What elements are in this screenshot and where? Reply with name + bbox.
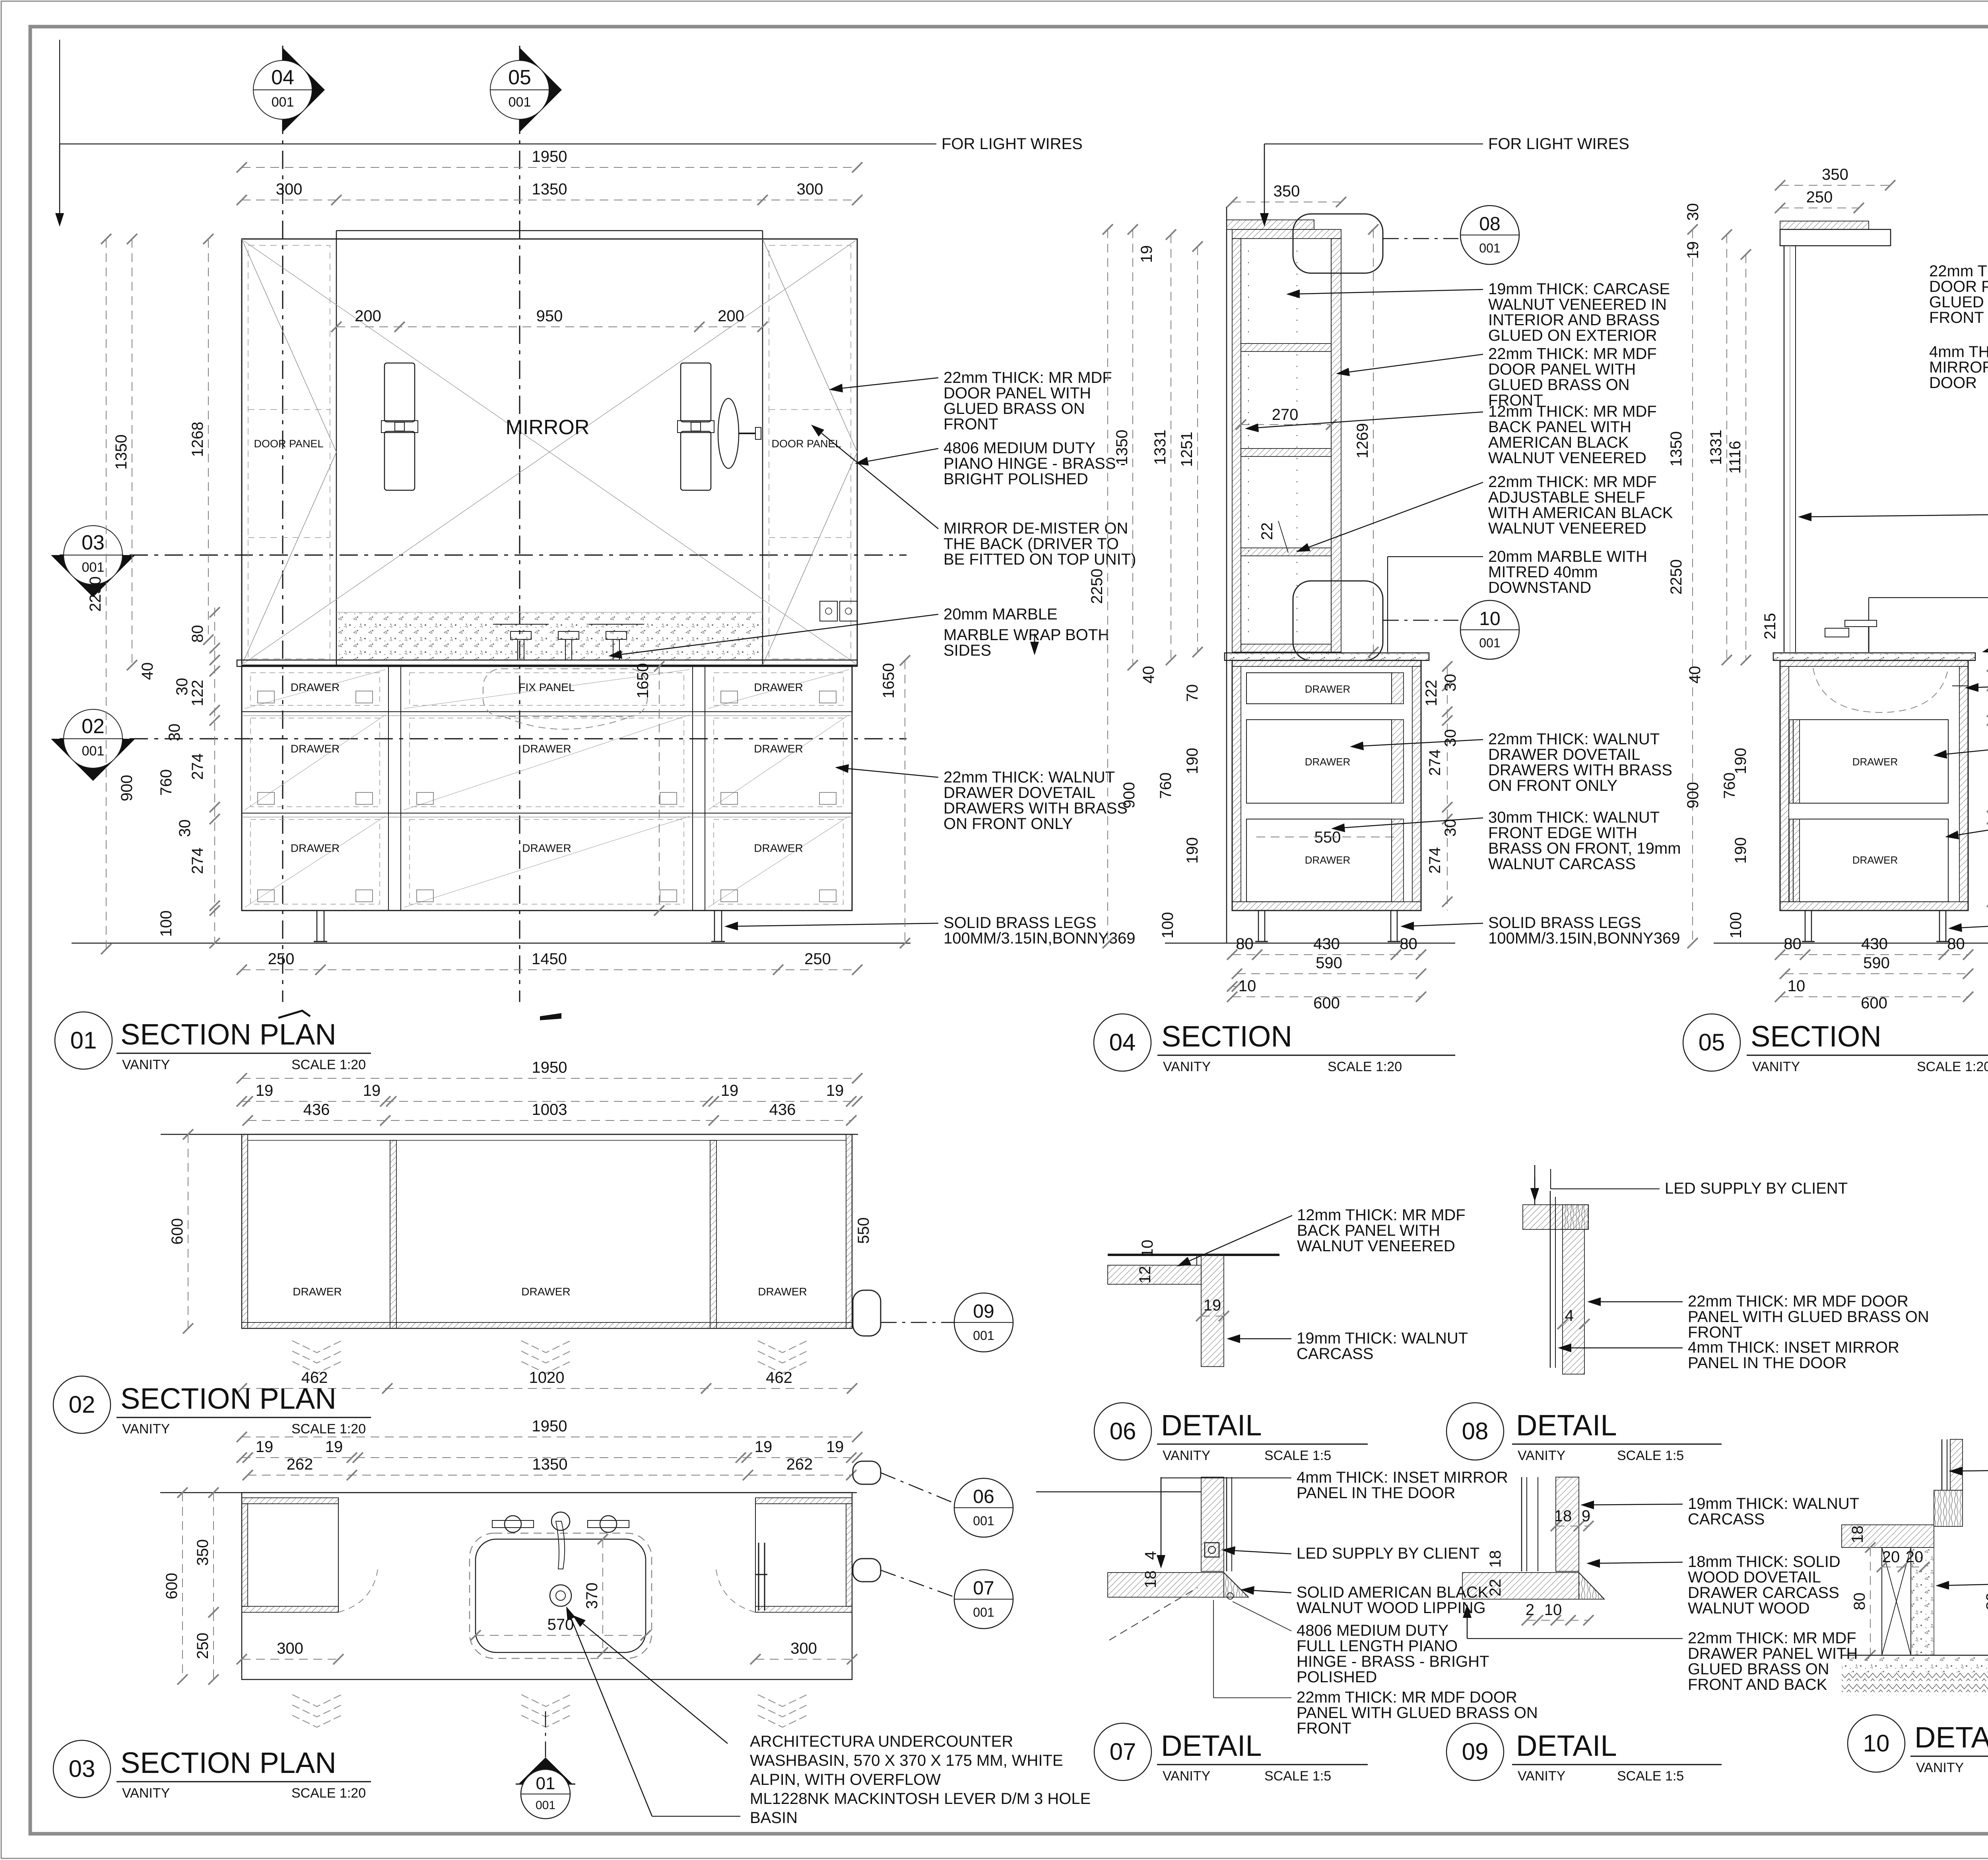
svg-text:001: 001 (272, 95, 294, 110)
svg-text:GLUED BRASS ON: GLUED BRASS ON (944, 400, 1085, 417)
svg-text:FIX PANEL: FIX PANEL (518, 681, 575, 693)
svg-text:WASHBASIN, 570 X 370 X 175 MM,: WASHBASIN, 570 X 370 X 175 MM, WHITE (750, 1752, 1063, 1769)
svg-text:250: 250 (194, 1633, 212, 1659)
svg-text:4806 MEDIUM DUTY: 4806 MEDIUM DUTY (944, 439, 1095, 457)
svg-text:04: 04 (1109, 1029, 1136, 1056)
svg-text:2250: 2250 (1088, 569, 1106, 604)
svg-text:20mm MARBLE: 20mm MARBLE (944, 606, 1058, 623)
svg-text:SOLID AMERICAN BLACK: SOLID AMERICAN BLACK (1297, 1584, 1489, 1601)
svg-text:AMERICAN BLACK: AMERICAN BLACK (1488, 434, 1629, 451)
svg-text:300: 300 (277, 1640, 303, 1657)
svg-text:22mm THICK: WALNUT: 22mm THICK: WALNUT (1488, 730, 1660, 748)
svg-text:1350: 1350 (1113, 430, 1131, 465)
svg-text:SCALE 1:5: SCALE 1:5 (1617, 1448, 1684, 1463)
svg-text:DRAWER DOVETAIL: DRAWER DOVETAIL (1488, 746, 1640, 763)
svg-text:262: 262 (287, 1456, 313, 1473)
svg-text:MIRROR PANEL IN THE: MIRROR PANEL IN THE (1929, 359, 1988, 376)
svg-text:INTERIOR AND BRASS: INTERIOR AND BRASS (1488, 311, 1660, 329)
svg-text:SOLID BRASS LEGS: SOLID BRASS LEGS (1488, 914, 1641, 932)
svg-text:430: 430 (1861, 935, 1888, 953)
svg-text:80: 80 (1983, 1592, 1988, 1610)
svg-text:19: 19 (325, 1438, 343, 1456)
svg-text:06: 06 (1110, 1418, 1136, 1445)
svg-text:19: 19 (1138, 245, 1155, 263)
svg-text:MIRROR: MIRROR (506, 416, 590, 439)
svg-text:550: 550 (855, 1217, 872, 1244)
svg-text:FULL LENGTH PIANO: FULL LENGTH PIANO (1297, 1637, 1458, 1655)
svg-text:760: 760 (1721, 773, 1738, 799)
svg-text:FRONT AND BACK: FRONT AND BACK (1688, 1676, 1827, 1693)
svg-text:GLUED BRASS ON: GLUED BRASS ON (1488, 376, 1630, 394)
svg-text:19mm THICK: WALNUT: 19mm THICK: WALNUT (1688, 1495, 1859, 1512)
svg-text:80: 80 (189, 625, 206, 643)
svg-text:DRAWER PANEL WITH: DRAWER PANEL WITH (1688, 1645, 1858, 1662)
svg-text:900: 900 (1120, 782, 1138, 809)
svg-text:VANITY: VANITY (122, 1057, 170, 1072)
svg-text:22mm THICK: WALNUT: 22mm THICK: WALNUT (944, 769, 1115, 786)
svg-text:SCALE 1:5: SCALE 1:5 (1264, 1448, 1331, 1463)
svg-text:436: 436 (769, 1101, 796, 1118)
svg-text:DOOR PANEL WITH: DOOR PANEL WITH (944, 384, 1091, 402)
svg-text:BE FITTED ON TOP UNIT): BE FITTED ON TOP UNIT) (944, 551, 1136, 568)
svg-text:215: 215 (1761, 613, 1779, 640)
svg-text:1268: 1268 (189, 422, 206, 457)
svg-text:DRAWERS WITH BRASS: DRAWERS WITH BRASS (944, 800, 1128, 817)
svg-text:DRAWER CARCASS: DRAWER CARCASS (1688, 1584, 1839, 1602)
svg-text:1269: 1269 (1354, 423, 1371, 458)
svg-text:2250: 2250 (1668, 559, 1685, 595)
svg-text:250: 250 (268, 950, 295, 968)
svg-text:4mm THICK: INSET MIRROR: 4mm THICK: INSET MIRROR (1297, 1469, 1508, 1486)
svg-text:300: 300 (790, 1640, 817, 1657)
svg-text:1350: 1350 (532, 1456, 568, 1473)
svg-text:FRONT: FRONT (1929, 309, 1984, 326)
svg-text:DETAIL: DETAIL (1161, 1729, 1262, 1762)
svg-text:10: 10 (1788, 977, 1806, 995)
svg-text:40: 40 (139, 662, 156, 680)
svg-text:19: 19 (721, 1082, 739, 1099)
svg-text:22mm THICK: MR MDF: 22mm THICK: MR MDF (1688, 1629, 1856, 1647)
svg-text:DOOR PANEL WITH: DOOR PANEL WITH (1488, 361, 1636, 378)
svg-text:4: 4 (1565, 1307, 1574, 1324)
svg-text:SIDES: SIDES (944, 642, 991, 659)
svg-text:PANEL IN THE DOOR: PANEL IN THE DOOR (1688, 1354, 1846, 1372)
svg-text:ALPIN, WITH OVERFLOW: ALPIN, WITH OVERFLOW (750, 1771, 941, 1788)
svg-text:950: 950 (536, 307, 563, 325)
svg-text:80: 80 (1400, 935, 1417, 953)
svg-text:ADJUSTABLE SHELF: ADJUSTABLE SHELF (1488, 489, 1645, 506)
svg-text:CARCASS: CARCASS (1297, 1345, 1373, 1363)
svg-text:200: 200 (718, 307, 744, 325)
svg-text:DETAIL: DETAIL (1914, 1721, 1988, 1754)
svg-text:DETAIL: DETAIL (1516, 1409, 1617, 1442)
svg-text:WALNUT WOOD: WALNUT WOOD (1688, 1600, 1810, 1617)
svg-text:ML1228NK MACKINTOSH LEVER D/M: ML1228NK MACKINTOSH LEVER D/M 3 HOLE (750, 1790, 1091, 1808)
svg-text:SECTION PLAN: SECTION PLAN (120, 1382, 336, 1415)
svg-text:10: 10 (1479, 608, 1500, 629)
svg-text:19mm THICK: CARCASE: 19mm THICK: CARCASE (1488, 280, 1670, 298)
svg-text:05: 05 (1699, 1029, 1725, 1056)
svg-text:THE BACK (DRIVER TO: THE BACK (DRIVER TO (944, 535, 1119, 553)
svg-text:900: 900 (1684, 782, 1702, 809)
svg-text:12: 12 (1136, 1266, 1154, 1284)
svg-text:30: 30 (1442, 729, 1459, 747)
svg-text:02: 02 (82, 715, 105, 738)
svg-text:22mm THICK: MR MDF: 22mm THICK: MR MDF (1488, 345, 1657, 363)
svg-text:300: 300 (276, 181, 303, 198)
svg-text:100MM/3.15IN,BONNY369: 100MM/3.15IN,BONNY369 (1488, 930, 1680, 947)
svg-text:DRAWER: DRAWER (291, 842, 340, 854)
svg-text:12mm THICK: MR MDF: 12mm THICK: MR MDF (1488, 403, 1657, 420)
svg-text:100: 100 (1727, 912, 1745, 939)
svg-text:590: 590 (1316, 954, 1342, 972)
svg-text:VANITY: VANITY (1163, 1769, 1210, 1784)
svg-text:274: 274 (1426, 749, 1444, 776)
svg-text:19: 19 (256, 1082, 274, 1099)
svg-text:001: 001 (973, 1514, 994, 1528)
svg-text:18: 18 (1554, 1507, 1572, 1525)
svg-text:07: 07 (973, 1578, 994, 1599)
svg-text:SCALE 1:20: SCALE 1:20 (1917, 1059, 1988, 1074)
svg-text:SCALE 1:20: SCALE 1:20 (1328, 1059, 1402, 1074)
svg-text:18mm THICK: SOLID: 18mm THICK: SOLID (1688, 1553, 1840, 1571)
svg-text:122: 122 (189, 680, 206, 707)
svg-text:SOLID BRASS LEGS: SOLID BRASS LEGS (944, 914, 1097, 932)
svg-text:SCALE 1:20: SCALE 1:20 (291, 1421, 366, 1437)
svg-text:VANITY: VANITY (1752, 1059, 1800, 1074)
svg-text:1116: 1116 (1726, 441, 1744, 474)
svg-text:VANITY: VANITY (1916, 1760, 1964, 1775)
svg-text:DRAWER: DRAWER (758, 1285, 807, 1298)
svg-text:DRAWER: DRAWER (754, 681, 803, 693)
svg-text:1020: 1020 (529, 1369, 565, 1386)
svg-text:1251: 1251 (1178, 432, 1196, 467)
svg-text:DOWNSTAND: DOWNSTAND (1488, 579, 1591, 596)
svg-text:DOOR PANEL WITH: DOOR PANEL WITH (1929, 278, 1988, 295)
svg-text:07: 07 (1110, 1738, 1136, 1765)
svg-text:80: 80 (1947, 935, 1965, 953)
svg-text:BRIGHT POLISHED: BRIGHT POLISHED (944, 470, 1088, 488)
svg-text:350: 350 (1822, 166, 1848, 183)
svg-text:DRAWER: DRAWER (1852, 854, 1898, 866)
svg-text:PANEL WITH GLUED BRASS ON: PANEL WITH GLUED BRASS ON (1297, 1704, 1538, 1722)
svg-text:1003: 1003 (532, 1101, 567, 1118)
svg-text:WITH AMERICAN BLACK: WITH AMERICAN BLACK (1488, 504, 1673, 522)
svg-text:18: 18 (1142, 1571, 1159, 1588)
svg-text:1650: 1650 (634, 663, 652, 699)
svg-text:19mm THICK: WALNUT: 19mm THICK: WALNUT (1297, 1330, 1468, 1347)
svg-text:DRAWER: DRAWER (291, 743, 340, 755)
svg-text:190: 190 (1732, 748, 1749, 775)
svg-text:DRAWER: DRAWER (754, 743, 803, 755)
svg-text:WALNUT CARCASS: WALNUT CARCASS (1488, 855, 1636, 873)
svg-text:001: 001 (973, 1605, 994, 1619)
svg-text:1350: 1350 (113, 435, 130, 470)
svg-text:DOOR PANEL: DOOR PANEL (254, 438, 323, 450)
svg-text:001: 001 (973, 1328, 994, 1343)
svg-text:20: 20 (1882, 1548, 1900, 1566)
svg-text:09: 09 (973, 1301, 994, 1322)
svg-text:80: 80 (1236, 935, 1254, 953)
svg-text:4mm THICK: INSET: 4mm THICK: INSET (1929, 343, 1988, 361)
svg-text:436: 436 (303, 1101, 330, 1118)
svg-text:BRASS ON FRONT, 19mm: BRASS ON FRONT, 19mm (1488, 840, 1681, 857)
svg-text:LED SUPPLY BY CLIENT: LED SUPPLY BY CLIENT (1297, 1545, 1479, 1562)
svg-text:08: 08 (1462, 1418, 1489, 1445)
svg-text:DOOR PANEL: DOOR PANEL (771, 438, 841, 450)
svg-text:1950: 1950 (532, 1059, 567, 1076)
svg-text:09: 09 (1462, 1738, 1489, 1765)
svg-text:80: 80 (1851, 1592, 1868, 1610)
svg-text:02: 02 (69, 1391, 95, 1418)
svg-text:22: 22 (1258, 522, 1276, 540)
svg-text:22: 22 (1487, 1579, 1504, 1597)
svg-text:001: 001 (1479, 241, 1500, 255)
svg-text:1650: 1650 (880, 663, 897, 699)
svg-text:190: 190 (1184, 748, 1201, 775)
svg-text:22mm THICK: MR MDF: 22mm THICK: MR MDF (944, 369, 1112, 386)
svg-text:WALNUT VENEERED IN: WALNUT VENEERED IN (1488, 296, 1667, 313)
svg-text:10: 10 (1239, 977, 1256, 995)
svg-text:600: 600 (1313, 994, 1340, 1012)
svg-text:VANITY: VANITY (1518, 1448, 1565, 1463)
svg-text:GLUED ON EXTERIOR: GLUED ON EXTERIOR (1488, 327, 1657, 344)
svg-text:19: 19 (755, 1438, 773, 1456)
svg-text:600: 600 (169, 1218, 186, 1245)
svg-text:01: 01 (70, 1027, 97, 1054)
svg-text:19: 19 (826, 1082, 844, 1099)
svg-text:05: 05 (508, 66, 531, 89)
svg-text:DRAWER: DRAWER (1305, 756, 1351, 768)
svg-text:BACK PANEL WITH: BACK PANEL WITH (1488, 418, 1631, 436)
svg-text:001: 001 (536, 1799, 555, 1812)
svg-text:19: 19 (256, 1438, 274, 1456)
svg-text:10: 10 (1863, 1730, 1890, 1757)
svg-text:03: 03 (82, 531, 105, 554)
svg-text:20: 20 (1906, 1548, 1924, 1566)
svg-text:4mm THICK: INSET MIRROR: 4mm THICK: INSET MIRROR (1688, 1339, 1899, 1356)
svg-text:VANITY: VANITY (1163, 1448, 1210, 1463)
svg-text:ARCHITECTURA UNDERCOUNTER: ARCHITECTURA UNDERCOUNTER (750, 1733, 1013, 1750)
svg-text:600: 600 (1861, 994, 1887, 1012)
svg-text:12mm THICK: MR MDF: 12mm THICK: MR MDF (1297, 1206, 1466, 1224)
svg-text:600: 600 (163, 1573, 181, 1600)
svg-text:1331: 1331 (1151, 430, 1169, 465)
svg-text:SECTION: SECTION (1751, 1020, 1881, 1053)
svg-text:30: 30 (1442, 674, 1459, 692)
svg-text:ON FRONT ONLY: ON FRONT ONLY (944, 815, 1073, 833)
svg-text:PANEL WITH GLUED BRASS ON: PANEL WITH GLUED BRASS ON (1688, 1308, 1929, 1326)
svg-text:DETAIL: DETAIL (1516, 1729, 1617, 1762)
svg-text:70: 70 (1184, 684, 1201, 702)
svg-text:22mm THICK: MR MDF DOOR: 22mm THICK: MR MDF DOOR (1688, 1293, 1908, 1310)
svg-text:DRAWER: DRAWER (1305, 683, 1351, 695)
svg-text:80: 80 (1784, 935, 1802, 953)
svg-text:DRAWER: DRAWER (522, 743, 571, 755)
svg-text:18: 18 (1849, 1526, 1866, 1544)
svg-text:760: 760 (157, 769, 175, 796)
svg-text:22mm THICK: MR MDF: 22mm THICK: MR MDF (1929, 262, 1988, 280)
svg-text:19: 19 (1204, 1297, 1221, 1314)
svg-text:40: 40 (1140, 666, 1157, 684)
svg-text:SECTION: SECTION (1161, 1020, 1292, 1053)
svg-text:190: 190 (1184, 837, 1201, 864)
svg-text:274: 274 (189, 753, 206, 780)
svg-text:FRONT: FRONT (1297, 1720, 1351, 1737)
svg-text:30: 30 (1684, 203, 1702, 221)
svg-text:VANITY: VANITY (1163, 1059, 1211, 1074)
svg-text:350: 350 (194, 1539, 212, 1566)
svg-text:19: 19 (1684, 241, 1702, 259)
svg-text:DETAIL: DETAIL (1161, 1409, 1262, 1442)
svg-text:WALNUT VENEERED: WALNUT VENEERED (1488, 520, 1646, 537)
svg-text:SECTION PLAN: SECTION PLAN (120, 1746, 336, 1779)
svg-text:HINGE - BRASS - BRIGHT: HINGE - BRASS - BRIGHT (1297, 1653, 1489, 1670)
svg-text:10: 10 (1139, 1240, 1156, 1258)
svg-text:LED SUPPLY BY CLIENT: LED SUPPLY BY CLIENT (1665, 1180, 1848, 1197)
svg-text:18: 18 (1487, 1550, 1504, 1568)
svg-text:250: 250 (1806, 188, 1833, 206)
svg-text:SCALE 1:20: SCALE 1:20 (291, 1786, 366, 1801)
svg-text:590: 590 (1863, 954, 1890, 972)
svg-text:22mm THICK: MR MDF DOOR: 22mm THICK: MR MDF DOOR (1297, 1689, 1517, 1706)
svg-text:03: 03 (69, 1755, 95, 1782)
svg-text:FRONT EDGE WITH: FRONT EDGE WITH (1488, 824, 1637, 842)
svg-text:100: 100 (157, 911, 175, 937)
svg-text:30: 30 (166, 724, 183, 742)
svg-text:1350: 1350 (1668, 431, 1685, 467)
svg-text:06: 06 (973, 1486, 994, 1507)
svg-text:SCALE 1:20: SCALE 1:20 (291, 1057, 366, 1072)
svg-text:900: 900 (118, 775, 136, 802)
svg-text:430: 430 (1313, 935, 1340, 953)
svg-text:01: 01 (536, 1774, 555, 1793)
svg-text:08: 08 (1479, 214, 1500, 235)
svg-text:2: 2 (1526, 1601, 1534, 1619)
svg-text:100: 100 (1159, 912, 1176, 939)
svg-text:FRONT: FRONT (944, 415, 998, 433)
svg-text:350: 350 (1274, 183, 1300, 200)
svg-text:1350: 1350 (532, 181, 567, 198)
svg-text:1950: 1950 (532, 148, 567, 165)
svg-text:DRAWER: DRAWER (754, 842, 803, 854)
svg-text:PIANO HINGE - BRASS -: PIANO HINGE - BRASS - (944, 455, 1126, 472)
svg-text:GLUED BRASS ON: GLUED BRASS ON (1688, 1660, 1829, 1678)
svg-text:DRAWER: DRAWER (522, 842, 571, 854)
svg-text:MITRED 40mm: MITRED 40mm (1488, 563, 1598, 581)
svg-text:10: 10 (1544, 1601, 1562, 1619)
svg-text:DOOR: DOOR (1929, 374, 1977, 392)
svg-text:DRAWER: DRAWER (293, 1285, 342, 1298)
svg-text:04: 04 (271, 66, 294, 89)
svg-text:WALNUT VENEERED: WALNUT VENEERED (1488, 449, 1646, 467)
svg-text:VANITY: VANITY (1518, 1769, 1565, 1784)
svg-text:WALNUT VENEERED: WALNUT VENEERED (1297, 1237, 1455, 1255)
svg-text:SECTION PLAN: SECTION PLAN (120, 1018, 336, 1051)
svg-text:PANEL IN THE DOOR: PANEL IN THE DOOR (1297, 1484, 1455, 1502)
svg-text:DRAWER: DRAWER (521, 1285, 570, 1298)
svg-text:ON FRONT ONLY: ON FRONT ONLY (1488, 777, 1617, 794)
svg-text:WALNUT WOOD LIPPING: WALNUT WOOD LIPPING (1297, 1599, 1486, 1617)
svg-text:30: 30 (1442, 819, 1459, 837)
svg-text:FOR LIGHT WIRES: FOR LIGHT WIRES (942, 135, 1083, 153)
svg-text:DRAWER: DRAWER (291, 681, 340, 693)
svg-text:9: 9 (1582, 1507, 1590, 1525)
svg-text:1450: 1450 (532, 950, 567, 968)
svg-text:POLISHED: POLISHED (1297, 1668, 1377, 1686)
svg-text:CARCASS: CARCASS (1688, 1511, 1765, 1528)
svg-text:200: 200 (355, 307, 381, 325)
svg-text:4806 MEDIUM DUTY: 4806 MEDIUM DUTY (1297, 1622, 1448, 1639)
svg-text:22mm THICK: MR MDF: 22mm THICK: MR MDF (1488, 473, 1657, 491)
svg-text:MARBLE WRAP BOTH: MARBLE WRAP BOTH (944, 626, 1109, 644)
svg-text:19: 19 (363, 1082, 381, 1099)
svg-text:SCALE 1:5: SCALE 1:5 (1264, 1769, 1331, 1784)
svg-text:BASIN: BASIN (750, 1809, 798, 1827)
svg-text:370: 370 (583, 1582, 601, 1609)
svg-text:274: 274 (1426, 847, 1444, 874)
svg-text:001: 001 (1479, 636, 1500, 650)
svg-text:001: 001 (509, 95, 531, 110)
svg-text:001: 001 (82, 744, 105, 759)
svg-text:SCALE 1:5: SCALE 1:5 (1617, 1769, 1684, 1784)
svg-text:274: 274 (189, 848, 206, 874)
svg-text:760: 760 (1157, 773, 1175, 799)
svg-text:30mm THICK: WALNUT: 30mm THICK: WALNUT (1488, 809, 1660, 826)
svg-text:VANITY: VANITY (122, 1421, 170, 1437)
svg-text:300: 300 (797, 181, 823, 198)
svg-text:1950: 1950 (532, 1417, 567, 1435)
svg-text:270: 270 (1272, 406, 1299, 423)
svg-text:30: 30 (176, 819, 194, 837)
svg-text:WOOD DOVETAIL: WOOD DOVETAIL (1688, 1569, 1821, 1586)
svg-text:250: 250 (804, 950, 831, 968)
svg-text:BACK PANEL WITH: BACK PANEL WITH (1297, 1222, 1440, 1239)
svg-text:1331: 1331 (1707, 430, 1725, 465)
svg-text:462: 462 (766, 1369, 792, 1386)
svg-text:190: 190 (1732, 837, 1749, 864)
svg-text:19: 19 (826, 1438, 844, 1456)
svg-text:GLUED BRASS ON: GLUED BRASS ON (1929, 293, 1988, 311)
svg-text:FOR LIGHT WIRES: FOR LIGHT WIRES (1488, 135, 1629, 153)
svg-text:MIRROR DE-MISTER ON: MIRROR DE-MISTER ON (944, 520, 1128, 537)
svg-text:DRAWER: DRAWER (1305, 854, 1351, 866)
svg-text:DRAWER: DRAWER (1852, 756, 1898, 768)
svg-text:VANITY: VANITY (122, 1786, 170, 1801)
svg-text:2250: 2250 (87, 577, 104, 612)
svg-text:122: 122 (1423, 680, 1440, 707)
svg-text:262: 262 (786, 1456, 813, 1473)
svg-text:DRAWER DOVETAIL: DRAWER DOVETAIL (944, 784, 1095, 802)
svg-text:30: 30 (173, 678, 191, 696)
svg-text:40: 40 (1686, 666, 1704, 684)
svg-text:20mm MARBLE WITH: 20mm MARBLE WITH (1488, 548, 1647, 565)
svg-text:DRAWERS WITH BRASS: DRAWERS WITH BRASS (1488, 761, 1672, 779)
svg-text:001: 001 (82, 560, 105, 575)
